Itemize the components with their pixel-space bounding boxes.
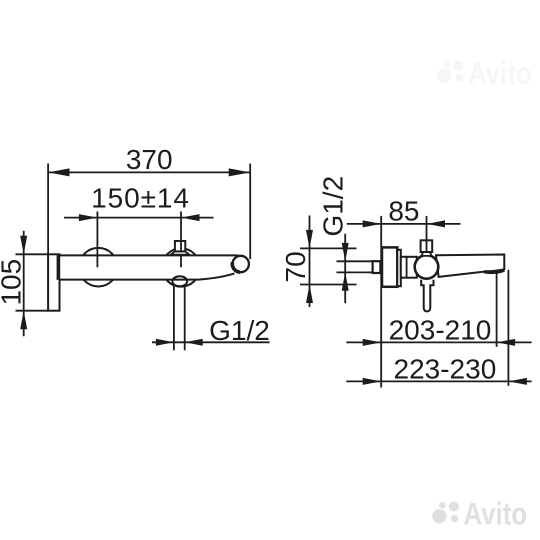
svg-text:105: 105 [0,259,27,306]
svg-text:Avito: Avito [468,57,532,92]
svg-text:223-230: 223-230 [394,353,497,384]
svg-text:150±14: 150±14 [91,183,190,214]
svg-text:G1/2: G1/2 [318,176,349,237]
svg-text:203-210: 203-210 [389,315,492,346]
svg-text:Avito: Avito [464,497,528,532]
svg-text:G1/2: G1/2 [209,315,270,346]
svg-text:370: 370 [126,144,173,175]
svg-text:70: 70 [280,251,311,282]
svg-text:85: 85 [388,196,419,227]
